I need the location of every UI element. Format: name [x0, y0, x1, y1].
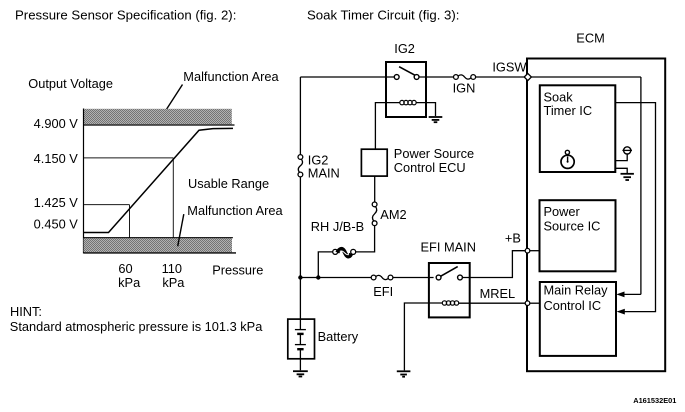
arrowhead IGSW into Main Relay Control IC — [616, 292, 624, 298]
wire into Main Relay Control IC (IGSW) — [622, 293, 641, 295]
svg-text:Battery: Battery — [318, 329, 359, 344]
svg-text:kPa: kPa — [118, 275, 141, 290]
IG2 relay box — [386, 62, 426, 117]
ground for EFI MAIN coil — [397, 371, 411, 376]
battery cells — [295, 319, 306, 370]
upper malfunction hatched band — [84, 109, 232, 125]
svg-text:Pressure: Pressure — [212, 263, 263, 278]
wire top horizontal from left corner to IG2 switch — [300, 76, 394, 78]
main horizontal wire battery level — [300, 277, 371, 279]
svg-text:Soak Timer Circuit (fig. 3):: Soak Timer Circuit (fig. 3): — [307, 7, 459, 22]
svg-text:60: 60 — [118, 261, 132, 276]
svg-text:Control ECU: Control ECU — [394, 160, 466, 175]
Power Source Control ECU box — [361, 149, 387, 176]
gridline 1.425 V horizontal — [84, 204, 130, 206]
svg-text:A161532E01: A161532E01 — [633, 396, 676, 405]
lower band bottom edge line — [84, 252, 237, 254]
svg-text:EFI: EFI — [373, 284, 393, 299]
ground for battery — [293, 371, 308, 376]
wire IG2 switch right to IGN fuse — [419, 76, 453, 78]
svg-text:ECM: ECM — [576, 30, 604, 45]
IGN fuse — [454, 75, 476, 80]
IG2 MAIN fuse — [298, 155, 303, 177]
Battery box — [288, 319, 315, 359]
svg-text:RH J/B-B: RH J/B-B — [311, 219, 364, 234]
svg-text:0.450 V: 0.450 V — [34, 216, 79, 231]
sensor output curve — [84, 128, 233, 232]
svg-text:kPa: kPa — [162, 275, 185, 290]
wire left vertical upper (to IG2 MAIN fuse) — [299, 77, 301, 155]
RH J/B-B fusible link — [333, 249, 356, 256]
gridline 4.150 V horizontal — [84, 157, 173, 159]
wire AM2 down and left to fusible link — [356, 226, 375, 252]
EFI MAIN switch contact left — [436, 275, 441, 280]
Soak Timer IC terminal stub upper — [616, 154, 628, 161]
+B node circle — [525, 248, 530, 253]
EFI MAIN coil — [442, 301, 458, 305]
svg-text:4.900 V: 4.900 V — [34, 116, 79, 131]
EFI fuse — [371, 275, 393, 280]
ground for Soak Timer IC — [621, 174, 634, 180]
wire vertical IGSW feed down — [640, 77, 642, 294]
svg-text:Control IC: Control IC — [544, 298, 602, 313]
IG2 relay switch contact left — [394, 75, 399, 80]
EFI MAIN switch blade — [440, 267, 457, 277]
ECM box — [527, 59, 665, 372]
wire left vertical lower (IG2 MAIN to battery) — [299, 177, 301, 319]
Main Relay Control IC box — [540, 282, 616, 356]
svg-text:110: 110 — [162, 261, 182, 276]
svg-text:IGSW: IGSW — [492, 60, 527, 75]
svg-text:+B: +B — [505, 230, 521, 245]
MREL node circle — [525, 301, 530, 306]
AM2 fuse — [372, 202, 377, 226]
leader line upper malfunction — [162, 85, 183, 118]
svg-text:Usable Range: Usable Range — [188, 176, 269, 191]
gridline 60 kPa vertical — [129, 205, 131, 238]
svg-text:Pressure Sensor Specification: Pressure Sensor Specification (fig. 2): — [15, 7, 236, 22]
svg-text:Power: Power — [544, 204, 581, 219]
IG2 relay switch contact right — [414, 75, 419, 80]
junction dot at left vertical — [298, 275, 302, 279]
leader line lower malfunction — [178, 214, 184, 246]
Power Source IC box — [540, 200, 616, 271]
upper band bottom edge line — [84, 124, 235, 126]
EFI MAIN coil wire left to ground — [404, 303, 442, 370]
wire +B node to Power Source IC — [530, 250, 540, 252]
wire EFI MAIN switch to +B node — [462, 251, 525, 278]
IG2 relay coil — [400, 100, 416, 104]
terminal circle — [624, 147, 631, 154]
IG2 relay coil wire right to ground — [416, 103, 435, 116]
EFI MAIN switch contact right — [458, 275, 463, 280]
svg-text:Source IC: Source IC — [544, 218, 601, 233]
lower band top edge line — [84, 237, 233, 239]
wire PSC ECU to AM2 fuse — [374, 176, 376, 202]
svg-text:MREL: MREL — [480, 286, 516, 301]
stopwatch icon — [561, 150, 574, 168]
svg-text:Standard atmospheric pressure: Standard atmospheric pressure is 101.3 k… — [10, 319, 263, 334]
lower malfunction hatched band — [84, 238, 233, 252]
IG2 relay switch blade — [399, 67, 415, 76]
Soak Timer IC output wire to Main Relay Control IC — [616, 103, 656, 312]
svg-text:MAIN: MAIN — [308, 166, 340, 181]
svg-text:Output Voltage: Output Voltage — [28, 76, 113, 91]
EFI MAIN relay box — [429, 263, 470, 317]
wire EFI MAIN coil to MREL node — [459, 302, 526, 304]
svg-text:1.425 V: 1.425 V — [34, 195, 79, 210]
svg-text:IGN: IGN — [453, 81, 476, 96]
wire MREL node to Main Relay Control IC — [530, 302, 540, 304]
svg-text:Malfunction Area: Malfunction Area — [183, 69, 279, 84]
wire EFI fuse to EFI MAIN relay — [393, 277, 434, 279]
svg-text:Timer IC: Timer IC — [544, 103, 593, 118]
y-axis — [83, 109, 85, 254]
IG2 relay coil wire left — [375, 103, 399, 150]
wire fusible link left down to main line — [318, 252, 332, 278]
svg-text:4.150 V: 4.150 V — [34, 151, 79, 166]
svg-text:EFI MAIN: EFI MAIN — [421, 240, 476, 255]
svg-text:Power Source: Power Source — [394, 146, 474, 161]
svg-text:HINT:: HINT: — [10, 304, 42, 319]
ground for IG2 relay coil — [429, 117, 443, 122]
terminal crossbar — [622, 149, 632, 151]
svg-text:AM2: AM2 — [380, 207, 406, 222]
wire IGN fuse to IGSW node — [476, 76, 525, 78]
wire IGSW node into ECM to right — [531, 76, 641, 78]
gridline 110 kPa vertical — [172, 158, 174, 238]
svg-text:Malfunction Area: Malfunction Area — [187, 203, 283, 218]
Soak Timer IC ground stub — [616, 168, 628, 173]
svg-text:IG2: IG2 — [394, 41, 415, 56]
arrowhead Soak Timer into Main Relay Control IC — [617, 309, 625, 315]
svg-text:Main Relay: Main Relay — [544, 283, 609, 298]
junction dot at RH J/B-B drop — [316, 275, 320, 279]
IGSW node diamond — [524, 73, 531, 80]
Soak Timer IC box — [540, 85, 616, 172]
